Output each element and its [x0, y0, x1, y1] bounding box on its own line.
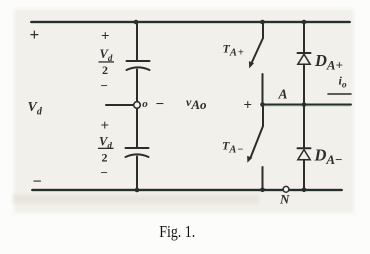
junction node A / diode leg	[302, 102, 307, 107]
diode DA+ triangle	[298, 54, 310, 64]
junction bottom rail / diode leg	[302, 188, 307, 193]
node N terminal circle	[283, 186, 289, 192]
diode DA- lower lead	[303, 160, 305, 190]
junction bottom rail / switch leg	[260, 188, 265, 193]
wire capacitor column upper segment	[136, 22, 138, 61]
diode DA- cathode bar	[298, 147, 311, 149]
diode DA- triangle	[298, 150, 310, 160]
switch TA- arrowhead	[247, 156, 252, 163]
scan colour fringe below top rail	[31, 22, 350, 24]
label Vd/2 upper fraction bar	[99, 61, 115, 62]
node o terminal circle	[134, 102, 141, 109]
switch TA+ blade	[252, 38, 263, 63]
switch TA+ lower contact	[262, 74, 264, 105]
switch TA- lower contact	[262, 167, 264, 190]
diode DA+ upper lead	[303, 22, 305, 53]
paper shadow band at bottom edge of scan	[13, 195, 259, 204]
label Vd/2 lower fraction bar	[98, 148, 114, 149]
scan colour fringe above bottom rail	[32, 188, 342, 190]
switch TA+ upper lead	[262, 22, 264, 38]
wire node o to lower capacitor	[136, 109, 138, 148]
junction top rail / switch leg	[260, 20, 265, 25]
capacitor C upper (Vd/2)	[127, 61, 150, 70]
wire io current reference line	[328, 93, 351, 95]
wire stub left of node o	[106, 104, 133, 106]
wire bottom negative DC rail	[32, 189, 342, 191]
wire node A output rail	[263, 104, 352, 106]
switch TA- upper lead	[262, 105, 264, 126]
junction top rail / capacitor column	[134, 20, 139, 25]
scan colour fringe below bottom rail	[32, 190, 342, 192]
junction bottom rail / capacitor column	[135, 188, 140, 193]
diode DA+ cathode bar	[298, 52, 311, 54]
wire lower capacitor to bottom rail	[136, 157, 138, 191]
scanned paper background	[14, 9, 354, 213]
wire top positive DC rail	[31, 21, 350, 23]
scan colour fringe below node A rail	[263, 105, 352, 107]
junction top rail / diode leg	[302, 20, 307, 25]
wire capacitor column below C+ to node o	[136, 70, 138, 102]
diode DA- upper lead	[303, 105, 305, 148]
capacitor C lower (Vd/2)	[126, 148, 149, 157]
junction node A / switch leg	[260, 102, 265, 107]
scan colour fringe above top rail	[31, 20, 350, 22]
switch TA- blade	[251, 126, 263, 157]
diode DA+ lower lead	[303, 64, 305, 104]
svg-text:Fig. 1.: Fig. 1.	[159, 223, 195, 242]
switch TA+ arrowhead	[249, 61, 254, 68]
